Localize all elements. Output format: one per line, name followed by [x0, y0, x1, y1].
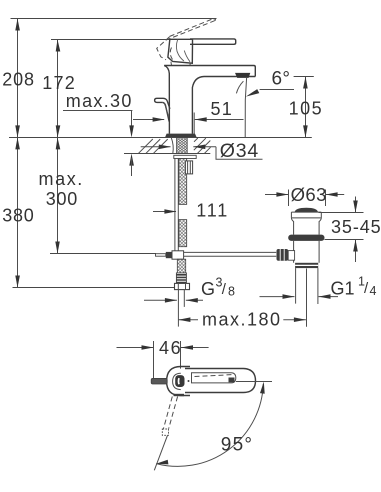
arrow 35-45 top down	[353, 201, 358, 213]
lever side profile tip	[155, 98, 170, 109]
max30 lower arrow tail	[131, 158, 133, 176]
svg-text:46: 46	[159, 338, 182, 358]
threaded shank between deck	[177, 138, 188, 154]
reference line top of lever	[11, 18, 217, 20]
arrow hole left pointing right	[141, 146, 171, 148]
top view spout channel slot	[192, 373, 236, 383]
swing end line	[154, 435, 167, 470]
hose below tee	[177, 259, 185, 273]
dashed lever raised position	[166, 21, 215, 41]
body left edge with corner	[164, 66, 169, 134]
diameter 63 arrow right	[326, 194, 344, 196]
6 deg leader arrowhead	[246, 89, 259, 97]
top view cap bottom dark segment	[174, 394, 185, 396]
35-45 bottom reference line	[325, 239, 364, 241]
46 arrow right pointing left	[181, 347, 209, 349]
G38 arrow left pointing right	[144, 299, 177, 301]
svg-text:95°: 95°	[221, 435, 253, 456]
tee stub left	[156, 254, 166, 257]
6 deg leader line	[260, 89, 294, 91]
dashed handle body tilted	[157, 37, 170, 60]
max180 left extension (pipe line continued)	[177, 290, 179, 327]
mounting nut below deck	[185, 161, 192, 174]
tee dark block	[166, 252, 172, 258]
arrow max300 top up	[56, 138, 61, 150]
swing dashed square	[162, 429, 168, 435]
95 deg arc	[156, 384, 263, 466]
drain plug dome	[295, 208, 318, 212]
reference line bottom max300	[50, 253, 156, 255]
max180 right extension (drain centerline)	[306, 269, 308, 327]
handle body inner contour	[176, 40, 184, 61]
handle neck	[171, 62, 190, 65]
svg-text:G1: G1	[331, 279, 355, 299]
svg-text:111: 111	[196, 201, 229, 221]
arrow 95 start up	[260, 382, 265, 394]
braided hose lower section	[179, 220, 187, 247]
pipe stub below nut	[183, 290, 185, 307]
arrow 111 pointing right	[153, 211, 176, 213]
deck bottom line	[124, 153, 210, 155]
channel dashed line	[195, 375, 234, 377]
svg-text:max.180: max.180	[202, 310, 282, 330]
diameter 63 extension ticks	[289, 190, 326, 207]
arrow max300 bottom down	[55, 242, 60, 254]
handle body	[168, 39, 193, 63]
arrow 172 top up	[56, 40, 61, 52]
channel inner dark block	[229, 378, 235, 383]
svg-text:380: 380	[2, 206, 34, 226]
svg-text:G: G	[201, 279, 215, 299]
svg-text:208: 208	[2, 70, 35, 90]
drain knob stem	[288, 251, 294, 261]
drain flange bell	[291, 212, 321, 235]
svg-text:max.30: max.30	[66, 91, 133, 111]
spout and body top outline	[164, 66, 255, 77]
lever shaft middle line	[164, 103, 168, 117]
G1 1/4 arrow left pointing right	[260, 296, 295, 298]
max180 dimension line right arrow	[283, 319, 306, 321]
lever bar horizontal	[190, 39, 236, 44]
top view lever tip protruding left	[151, 378, 167, 384]
spout underside	[192, 77, 255, 134]
svg-text:300: 300	[46, 189, 78, 209]
arrow 105 bottom down	[303, 125, 308, 137]
G38 nut	[175, 283, 190, 289]
arrow 95 end	[156, 460, 168, 465]
drain collar	[295, 263, 318, 268]
svg-text:Ø34: Ø34	[220, 140, 259, 162]
arrow 35-45 bottom up	[353, 240, 358, 252]
svg-text:4: 4	[370, 284, 377, 298]
drain seal O-ring	[288, 235, 324, 241]
deck hatching right	[194, 138, 211, 153]
svg-text:max.: max.	[39, 169, 84, 189]
escutcheon base plate	[165, 134, 196, 137]
G38 arrow right pointing left	[186, 299, 203, 301]
max180 dimension line left arrow	[178, 319, 198, 321]
aerator	[235, 73, 250, 78]
arrow 380 bottom down	[15, 276, 20, 288]
svg-text:35-45: 35-45	[331, 217, 381, 237]
dimension line 172/max300 vertical	[57, 40, 59, 254]
mounting hole left edge	[171, 138, 173, 154]
95 deg reference line	[236, 381, 272, 383]
max.30 leader vertical	[131, 111, 133, 134]
tee body	[172, 251, 184, 259]
lever side profile shaft	[163, 102, 169, 121]
51 extension line	[193, 113, 195, 138]
drain side knob	[277, 249, 289, 261]
dimension line 208/380 vertical	[17, 19, 19, 288]
reference line top of handle 172	[51, 39, 171, 41]
105 dimension line	[305, 77, 307, 138]
top view 46 extension lines	[154, 341, 181, 378]
arrow max30 up to deck bottom	[129, 154, 134, 166]
water stream line	[245, 78, 246, 137]
arrow 172 bottom down	[56, 125, 61, 137]
swing dashed lines	[164, 397, 178, 429]
top view lever dark pill	[175, 375, 184, 387]
top view escutcheon cap inner	[173, 373, 181, 389]
svg-text:Ø63: Ø63	[291, 184, 327, 205]
46 arrow left pointing right	[117, 347, 154, 349]
top view escutcheon cap outer	[167, 367, 190, 396]
reference line bottom 380	[13, 287, 175, 289]
deck hatching left	[139, 139, 168, 153]
arrow 105 top up	[303, 77, 308, 89]
arrow 208 bottom down	[15, 125, 20, 137]
braided hose upper section	[179, 159, 187, 205]
svg-text:51: 51	[211, 99, 233, 119]
drain body	[294, 241, 320, 263]
6 degree tick arc	[236, 81, 243, 93]
35-45 dimension line	[355, 197, 357, 213]
max.30 underline	[63, 110, 132, 112]
svg-text:105: 105	[289, 99, 324, 119]
G1 1/4 arrow right pointing left	[319, 296, 339, 298]
body width arrow left pointing right	[133, 119, 164, 121]
handle body inner contour 2	[184, 51, 190, 62]
ribbed connector	[176, 273, 186, 284]
arrow 208 top up	[15, 19, 20, 31]
arrow max30 down to deck top	[129, 125, 134, 137]
arrow hole right pointing left	[193, 146, 216, 148]
drain tailpipe	[296, 268, 318, 304]
105 top reference line	[294, 76, 314, 78]
diameter 34 leader step	[216, 147, 263, 159]
svg-text:8: 8	[228, 285, 235, 299]
51 dimension line with left arrow	[195, 119, 244, 121]
svg-text:6°: 6°	[272, 69, 291, 90]
arrow 380 top up	[15, 138, 20, 150]
deck top line	[9, 137, 312, 139]
supply pipe smooth vertical	[175, 159, 178, 251]
washer under deck	[174, 155, 196, 158]
diameter 63 arrow left	[265, 194, 288, 196]
top view pivot dot	[188, 380, 190, 382]
35-45 top reference line	[319, 212, 364, 214]
horizontal pipe to drain	[184, 252, 277, 256]
top view body capsule	[185, 369, 256, 393]
